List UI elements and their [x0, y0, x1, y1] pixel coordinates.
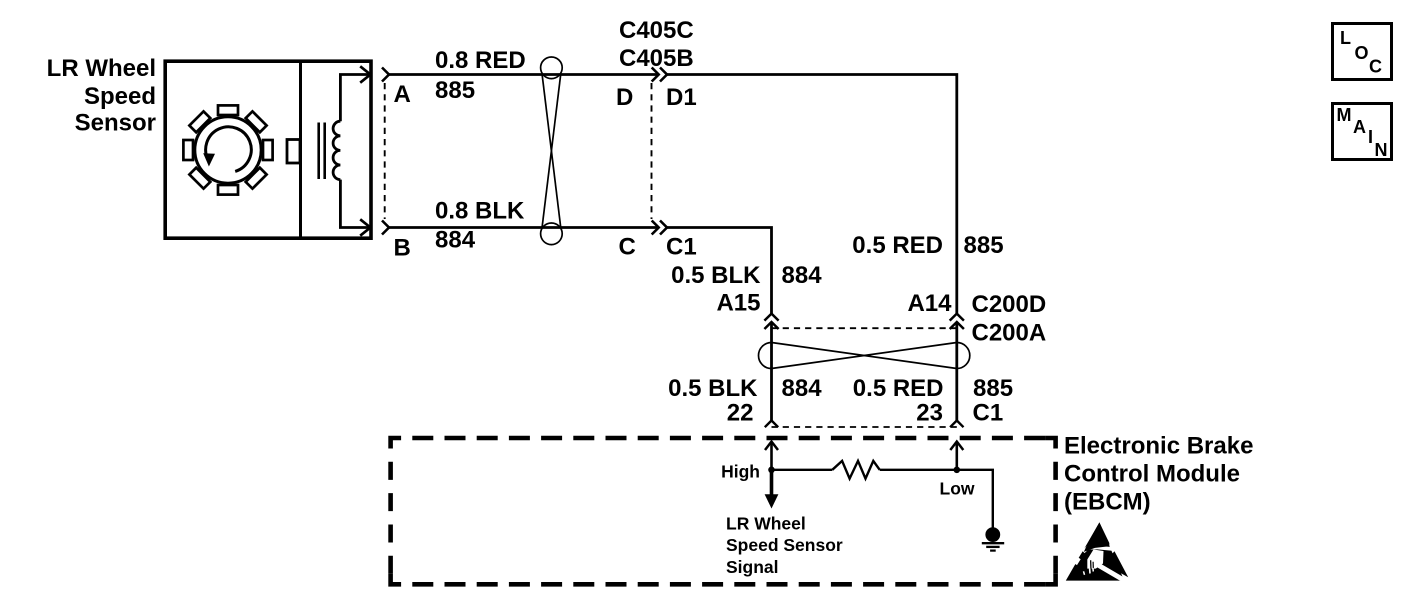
wire 884 segment A15 to pin 22	[770, 322, 773, 421]
EBCM connector C1 dashed line	[772, 426, 957, 428]
arrowhead terminal B inside box	[360, 219, 370, 235]
EBCM module label	[1064, 433, 1253, 516]
svg-text:L: L	[1340, 28, 1351, 48]
svg-text:LR Wheel: LR Wheel	[47, 55, 156, 82]
ESD sensitive device symbol	[1066, 522, 1131, 584]
sensor connector dashed line	[384, 83, 386, 219]
svg-text:885: 885	[973, 375, 1013, 402]
EBCM input arrow low	[950, 442, 963, 451]
svg-text:C405B: C405B	[619, 45, 694, 72]
connector C405 chevrons pin C	[652, 221, 667, 235]
svg-text:A: A	[394, 81, 411, 108]
svg-text:0.5 RED: 0.5 RED	[853, 375, 944, 402]
node Low junction dot	[954, 467, 961, 474]
svg-text:C200D: C200D	[972, 291, 1047, 318]
svg-text:(EBCM): (EBCM)	[1064, 489, 1151, 516]
connector C200 chevrons pin A15	[764, 314, 778, 329]
rotation arrow arc	[206, 127, 252, 172]
connector chevron pin A	[382, 68, 389, 82]
svg-text:23: 23	[916, 400, 943, 427]
svg-text:884: 884	[782, 375, 823, 402]
EBCM dashed module box	[391, 438, 1056, 584]
svg-text:Speed: Speed	[84, 83, 156, 110]
svg-text:C1: C1	[973, 400, 1004, 427]
wire coil bottom to terminal B	[340, 180, 368, 228]
arrowhead terminal A inside box	[360, 66, 370, 82]
svg-text:0.5 BLK: 0.5 BLK	[668, 375, 758, 402]
svg-text:A15: A15	[716, 290, 760, 317]
coil L1 winding	[333, 121, 340, 179]
sensor pickup element	[287, 140, 300, 164]
svg-text:0.8 BLK: 0.8 BLK	[435, 198, 525, 225]
svg-text:B: B	[394, 235, 411, 262]
connector C200 dashed line	[772, 327, 957, 329]
svg-text:0.5 BLK: 0.5 BLK	[671, 262, 761, 289]
wheel speed sensor box	[165, 61, 371, 238]
sensor internal divider	[299, 60, 302, 240]
svg-text:C: C	[619, 234, 636, 261]
resistor R internal	[832, 461, 879, 479]
svg-text:D1: D1	[666, 84, 697, 111]
svg-text:D: D	[616, 84, 633, 111]
coil core line 1	[317, 123, 320, 180]
tone wheel ring	[195, 117, 261, 183]
svg-text:C200A: C200A	[972, 320, 1047, 347]
connector chevron pin B	[382, 221, 389, 235]
svg-text:Speed Sensor: Speed Sensor	[726, 535, 843, 555]
coil core line 2	[323, 123, 326, 180]
connector C200 label	[972, 291, 1047, 347]
connector C200 chevrons pin A14	[950, 314, 964, 329]
svg-text:M: M	[1337, 105, 1352, 125]
wire 885 segment A to C405	[389, 73, 658, 76]
twisted pair symbol horizontal	[759, 343, 970, 369]
wire 884 segment B to C405	[389, 226, 658, 229]
EBCM connector chevron pin 22	[765, 421, 778, 428]
svg-text:High: High	[721, 462, 760, 482]
label LR Wheel Speed Sensor Signal	[726, 514, 843, 578]
svg-text:I: I	[1368, 127, 1373, 147]
svg-text:C405C: C405C	[619, 17, 694, 44]
svg-text:885: 885	[964, 232, 1004, 259]
svg-text:LR Wheel: LR Wheel	[726, 514, 806, 534]
wire high to resistor	[772, 469, 833, 471]
ground G internal	[982, 527, 1004, 550]
svg-text:22: 22	[727, 400, 754, 427]
svg-text:Control Module: Control Module	[1064, 461, 1240, 488]
connector C405 chevrons pin D	[652, 68, 667, 82]
wire low to ground	[957, 470, 993, 528]
twisted pair symbol vertical	[541, 57, 563, 245]
svg-text:O: O	[1355, 43, 1369, 63]
signal output arrow	[770, 470, 774, 496]
tone wheel teeth	[183, 105, 272, 194]
connector C405 label	[619, 17, 694, 72]
svg-text:C1: C1	[666, 234, 697, 261]
svg-text:A14: A14	[907, 290, 952, 317]
svg-text:884: 884	[435, 227, 476, 254]
svg-text:A: A	[1353, 117, 1366, 137]
EBCM connector chevron pin 23	[950, 421, 963, 428]
connector C405 dashed line	[651, 83, 653, 219]
svg-text:884: 884	[782, 262, 823, 289]
svg-text:N: N	[1375, 140, 1388, 160]
svg-text:Signal: Signal	[726, 557, 779, 577]
svg-text:C: C	[1369, 57, 1382, 77]
label LR Wheel Speed Sensor	[47, 55, 156, 137]
wire 885 segment A14 to pin 23	[955, 322, 958, 421]
node High junction dot	[768, 467, 775, 474]
nav button MAIN	[1333, 104, 1392, 161]
svg-text:Sensor: Sensor	[75, 110, 156, 137]
svg-text:Low: Low	[940, 479, 975, 499]
rotation arrowhead	[203, 153, 215, 166]
wire resistor to low	[880, 469, 957, 471]
svg-text:Electronic Brake: Electronic Brake	[1064, 433, 1253, 460]
EBCM input arrow high	[765, 442, 778, 451]
svg-text:885: 885	[435, 77, 475, 104]
nav button LOC	[1333, 24, 1392, 80]
svg-text:0.8 RED: 0.8 RED	[435, 47, 526, 74]
wire coil top to terminal A	[340, 75, 368, 122]
svg-text:0.5 RED: 0.5 RED	[852, 232, 943, 259]
wire 885 segment D1 to A14	[667, 75, 957, 314]
wire 884 segment C1 to A15	[667, 228, 772, 314]
